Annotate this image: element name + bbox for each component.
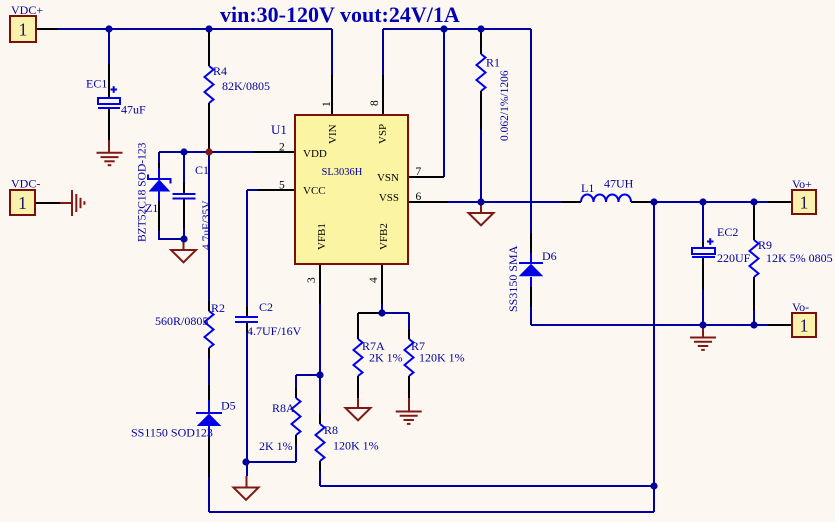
svg-text:5: 5: [279, 180, 285, 192]
svg-text:82K/0805: 82K/0805: [222, 79, 270, 93]
svg-text:220UF: 220UF: [717, 251, 751, 265]
svg-text:R1: R1: [486, 56, 500, 70]
svg-text:1: 1: [800, 316, 809, 336]
svg-text:12K 5% 0805: 12K 5% 0805: [766, 251, 833, 265]
svg-text:VCC: VCC: [303, 185, 326, 197]
svg-text:VFB1: VFB1: [316, 223, 328, 250]
svg-text:VSN: VSN: [377, 172, 399, 184]
svg-text:2K 1%: 2K 1%: [369, 351, 403, 365]
svg-text:R8A: R8A: [272, 401, 295, 415]
svg-text:R8: R8: [324, 423, 338, 437]
svg-text:R2: R2: [211, 301, 225, 315]
svg-text:VDC-: VDC-: [11, 177, 40, 191]
svg-text:R4: R4: [213, 64, 227, 78]
svg-text:1: 1: [321, 101, 333, 107]
svg-text:VSS: VSS: [379, 192, 399, 204]
svg-text:7: 7: [416, 166, 422, 178]
svg-text:4.7uF/35V: 4.7uF/35V: [201, 200, 213, 250]
svg-text:C1: C1: [195, 163, 209, 177]
svg-text:120K 1%: 120K 1%: [333, 439, 379, 453]
svg-text:L1: L1: [581, 181, 594, 195]
svg-text:Vo-: Vo-: [792, 300, 809, 314]
svg-text:C2: C2: [259, 300, 273, 314]
svg-text:SS1150 SOD123: SS1150 SOD123: [131, 426, 213, 440]
svg-text:2: 2: [279, 142, 285, 154]
svg-text:4: 4: [368, 277, 380, 283]
svg-text:D6: D6: [542, 249, 557, 263]
svg-text:D5: D5: [221, 399, 236, 413]
svg-text:47UH: 47UH: [604, 177, 634, 191]
svg-text:47uF: 47uF: [121, 103, 146, 117]
svg-text:SS3150 SMA: SS3150 SMA: [506, 245, 520, 312]
svg-text:VSP: VSP: [377, 124, 389, 144]
svg-text:R9: R9: [758, 238, 772, 252]
svg-text:6: 6: [416, 191, 422, 203]
svg-text:1: 1: [800, 193, 809, 213]
svg-text:3: 3: [306, 277, 318, 283]
svg-text:1: 1: [18, 193, 27, 213]
svg-text:SL3036H: SL3036H: [322, 167, 363, 178]
svg-text:VDD: VDD: [303, 148, 327, 160]
svg-text:1: 1: [19, 20, 28, 40]
svg-text:120K 1%: 120K 1%: [419, 351, 465, 365]
svg-text:Vo+: Vo+: [792, 177, 812, 191]
svg-text:vin:30-120V vout:24V/1A: vin:30-120V vout:24V/1A: [220, 2, 460, 27]
svg-text:VFB2: VFB2: [378, 223, 390, 250]
svg-text:0.062/1%/1206: 0.062/1%/1206: [499, 70, 511, 141]
svg-text:2K 1%: 2K 1%: [259, 439, 293, 453]
svg-text:4.7UF/16V: 4.7UF/16V: [247, 324, 302, 338]
svg-text:EC1: EC1: [86, 77, 107, 91]
svg-text:VIN: VIN: [327, 124, 339, 144]
svg-text:EC2: EC2: [717, 225, 738, 239]
svg-text:BZT52C18 SOD-123: BZT52C18 SOD-123: [137, 142, 149, 242]
svg-text:8: 8: [369, 100, 381, 106]
svg-text:VDC+: VDC+: [11, 3, 43, 17]
svg-text:560R/0805: 560R/0805: [155, 314, 208, 328]
svg-text:U1: U1: [271, 122, 287, 137]
